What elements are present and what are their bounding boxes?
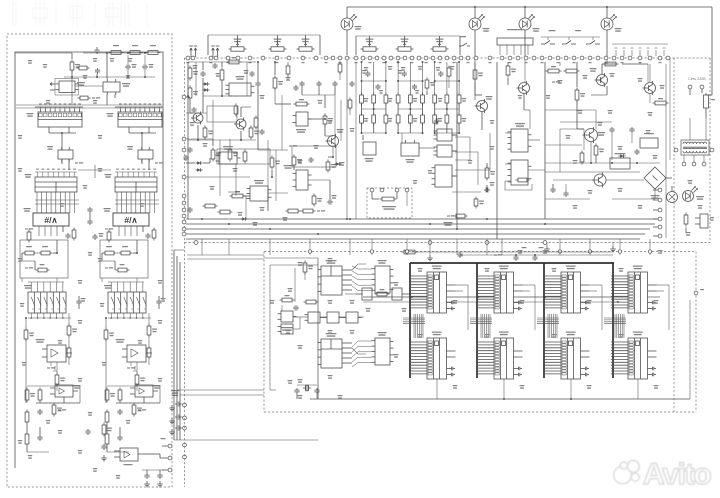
resistor R28 (348, 98, 352, 111)
register DD11 (K561IR2) (27, 109, 83, 133)
wires psu top (545, 62, 660, 219)
ground sym ch (101, 455, 107, 461)
resistor R88 (485, 166, 495, 181)
port expander DD34 (372, 332, 394, 365)
resistor R122 (132, 403, 142, 417)
DD17 pin wires ch2 (108, 282, 151, 319)
IO expander DD37 (KR580VV43), top row (544, 266, 590, 314)
resistor R86 (433, 113, 437, 126)
resistor R94 (546, 66, 562, 73)
wire latch to bus (49, 132, 83, 170)
bottom rail of digital board (310, 300, 690, 400)
resistor R18 (220, 68, 224, 83)
channel vertical rails ch2 (102, 278, 149, 403)
resistor R68 (301, 209, 326, 213)
capacitor C40 (609, 127, 614, 133)
resistor R32 (152, 228, 156, 241)
terminal row along top dashed border (186, 56, 670, 63)
osc gate DD30.4 (343, 312, 362, 323)
port expander DD33 (KM555) (372, 260, 394, 293)
ladder column wire 3 (397, 62, 399, 133)
resistor R91 (402, 250, 418, 254)
resistor R102 (118, 388, 122, 403)
ladder column wire 1 (373, 62, 375, 133)
diode VD1 (203, 82, 210, 86)
capacitor C30 (362, 70, 370, 77)
capacitor C15 (191, 107, 196, 113)
power arrow +15V ch1 (58, 409, 66, 410)
capacitor C81 (0.1) (76, 296, 85, 309)
resistor R16 (227, 57, 242, 64)
capacitor C36 (0.47) (484, 182, 495, 193)
op-amp DA23 (401, 140, 419, 163)
terminal a3 (485, 241, 489, 245)
resistor R78 (457, 93, 461, 106)
resistor R95 (564, 69, 580, 73)
resistor R39 (146, 51, 161, 55)
capacitor C22 (249, 71, 254, 77)
main analog board dashed enclosure A2 (185, 58, 711, 487)
wire bus above register (35, 103, 83, 109)
IO expander DD42 (KR580VV43), bottom row (611, 332, 657, 380)
capacitor C19 (183, 155, 188, 161)
resistor R131 (25, 432, 29, 447)
osc gate DD30.2 (305, 312, 324, 323)
transistor VT7 (KT315G) (326, 129, 344, 148)
resistor R15 (188, 86, 198, 101)
capacitor C81 (37, 435, 42, 441)
op-amp DA19 (363, 142, 376, 162)
op-amp DA21 (247, 180, 272, 201)
wire latch to bus (129, 132, 163, 170)
wires center cluster (257, 61, 356, 219)
caps C70/C71 to gnd (142, 470, 164, 487)
resistor divider R92 (105, 388, 115, 403)
resistor R107 (304, 300, 319, 304)
resistor divider R91 (25, 388, 35, 403)
capacitor C48 (550, 187, 555, 193)
value labels cluster, digital board (298, 262, 303, 266)
capacitor C12a (308, 157, 313, 163)
transistor VT6 (KP302 fet) (234, 118, 246, 131)
resistor R26 (286, 64, 290, 77)
capacitor C28 (1V) (327, 195, 337, 205)
resistor R64 (230, 191, 246, 198)
resistor R24 (234, 104, 238, 117)
LED V5 power indicator (683, 187, 705, 202)
capacitor C82 (117, 435, 122, 441)
bottom-left capacitor C63 (85, 429, 90, 435)
capacitor C18 (332, 81, 337, 87)
faint print-through ghost marks top-left (decorative) (13, 2, 147, 26)
feedback wires (107, 386, 160, 403)
capacitor C32 (398, 70, 407, 77)
capacitor C34 (434, 118, 440, 123)
capacitor C108 (314, 388, 319, 394)
counter DD31 (K155IE1) (318, 260, 367, 295)
crosslink wires between channels (78, 165, 111, 178)
ground mid (427, 255, 433, 261)
resistor R132 (103, 246, 117, 255)
capacitor C56 inter-channel (87, 207, 92, 213)
resistor R342 (147, 324, 157, 338)
IO expander DD41 (KR580VV43), bottom row (544, 332, 590, 380)
value labels cluster, psu right (558, 80, 563, 84)
value labels cluster, left board (28, 60, 33, 64)
wire extras upper analog (288, 62, 350, 116)
wires DA1/DA3 area (15, 53, 155, 105)
wires psu lower (545, 178, 672, 199)
ladder column wire 2 (385, 62, 387, 133)
resistor R62 (294, 99, 310, 106)
psu mesh wires (545, 58, 670, 238)
resistor R63 (292, 155, 302, 168)
IO expander DD36 (KR580VV43), top row (477, 266, 523, 314)
resistor R85 under DD27 (505, 178, 532, 190)
enclosure wires ch1 (22, 240, 58, 270)
subcircuit outline around DA24 (217, 149, 270, 164)
resistor R82 (384, 113, 388, 126)
resistor R141 (39, 246, 53, 255)
register DD12 (K561IR2) (107, 109, 163, 133)
digital board left rail wires (270, 265, 318, 390)
DAC output wires (25, 226, 63, 236)
ladder column wire 4 (409, 62, 411, 133)
osc area wires (264, 258, 318, 399)
pot R6 (431, 39, 449, 52)
diode VD9 (KD503) (196, 161, 203, 165)
terminal wires (146, 438, 168, 470)
treble pot R3 (Тембр ВЧ) (297, 39, 315, 52)
terminal a1 on bottom border (194, 241, 198, 245)
analog switch DD17 ch2 (K561KT3) (104, 285, 146, 313)
capacitor C23 (293, 85, 298, 91)
resistor R71 (203, 204, 218, 208)
resistor R98 (653, 98, 669, 105)
resistor R71 (372, 93, 376, 106)
top rail wires (83, 47, 148, 54)
pot bus 2 (356, 36, 460, 55)
flipflop DD27.2 (508, 160, 532, 185)
diode VD2 (203, 88, 210, 92)
channel vertical rails ch1 (22, 278, 69, 403)
preamp DA18 (AP7485D01) (226, 83, 255, 96)
bridge rectifier VD14 (KTs405A) (644, 167, 666, 199)
wires DD27 (497, 62, 545, 239)
junction dots tone area (361, 61, 461, 134)
DD32 to DD34 link wires (352, 341, 372, 367)
analog switch DD17 ch1 (K561KT3) (24, 285, 66, 313)
wire bundle ROM to DAC (35, 192, 79, 213)
mid bus wires (345, 294, 660, 303)
grounds under analog board (544, 242, 616, 252)
capacitor C61 (37, 409, 42, 415)
feedback wires (27, 386, 80, 403)
wire bus above register (115, 103, 163, 109)
resistor R70 (312, 194, 322, 207)
resistor R22 (107, 230, 111, 243)
DD29 feedback loop wires (452, 133, 490, 192)
resistor R38 (128, 51, 143, 55)
latch DD31 (58, 147, 73, 162)
resistor R58 (102, 423, 112, 437)
svg-text:#/∧: #/∧ (124, 215, 137, 225)
bottom bus wires of analog board (186, 219, 660, 239)
capacitor C14 (P3) (212, 63, 217, 69)
svg-text:Avito: Avito (643, 458, 711, 491)
+5V distribution with decoupling caps (494, 247, 613, 261)
resistor R90 (506, 64, 516, 78)
ROM DD51 (K573RF2) (25, 169, 78, 192)
ladder group tie wires (361, 80, 461, 133)
clock gen DA1 (K554CA3) (55, 79, 85, 96)
diode VD11 (241, 217, 248, 221)
diode VD10 (196, 168, 203, 172)
IO expander DD38 (KR580VV43), top row (611, 266, 657, 314)
resistor R151 (25, 264, 50, 272)
input terminals X2 arrows (211, 46, 219, 57)
terminal a2 on bottom border (428, 241, 432, 245)
gate DD29.3 (432, 165, 456, 226)
LED V1 (AL307B) (341, 7, 362, 55)
diode VD6 (335, 162, 342, 166)
value labels cluster, analog board left (193, 65, 198, 69)
terminal X3 (168, 444, 172, 448)
mode switch SC7 (stereo selector) (497, 29, 533, 55)
inner board outline (15, 52, 163, 468)
resistor R85 (421, 113, 425, 126)
resistor R80 (360, 113, 364, 126)
resistor R57 (243, 150, 247, 164)
resistor R73 (396, 93, 400, 106)
power transistor VT9 (KT819) (583, 127, 606, 143)
row link bundles horizontal (403, 318, 425, 324)
capacitor C49 (563, 191, 568, 197)
capacitor C17 (187, 147, 192, 153)
subcircuit outline around VT6 (207, 106, 237, 122)
inter-board vertical wires left (174, 250, 184, 440)
ladder column wire 5 (422, 62, 424, 133)
driver DA3 (KR140UD708) (103, 79, 130, 95)
capacitor C35 (438, 71, 443, 77)
DD17 pin wires ch1 (28, 282, 71, 319)
DD32 output fan wires (342, 343, 352, 363)
op-amp DA24 (KR140UD708) (216, 146, 241, 164)
stabilizer box VD12 (D814) (640, 133, 658, 148)
terminal X4 (168, 456, 172, 460)
DD31 to DD33 link wires (352, 266, 372, 291)
resistor R111 (25, 410, 29, 425)
svg-text:#/∧: #/∧ (44, 215, 57, 225)
capacitor C64 (101, 444, 106, 450)
fuse FU1 (704, 93, 716, 118)
counter DD32 (K155IE1) (318, 333, 367, 368)
transistor VT5 (KT203) (191, 112, 203, 125)
capacitor C44 (634, 149, 639, 155)
IO expander DD40 (KR580VV43), bottom row (477, 332, 523, 380)
resistor R82 (447, 66, 451, 79)
resistor R66 (323, 114, 333, 127)
wire rail y105 double (16, 105, 162, 108)
diode VD8 (619, 154, 626, 158)
resistor R88 (457, 113, 461, 126)
DD31 output fan wires (342, 270, 352, 290)
power arrow +5V (552, 81, 560, 82)
terminal X5 (168, 468, 172, 472)
buffer box E2 (392, 288, 402, 300)
buffer box E1 (362, 288, 372, 300)
resistor R70 (360, 93, 364, 106)
capacitor C107 (294, 388, 299, 394)
resistor R142 (119, 246, 133, 255)
connector verticals analog->digital band (202, 239, 652, 255)
resistor R27 (338, 62, 342, 75)
inter-row wire bundles (414, 314, 423, 338)
resistor R75 (421, 93, 425, 106)
lower chain wires (27, 425, 49, 453)
mains terminal Xp2 (700, 85, 704, 93)
+5V rail upper digital (410, 252, 613, 255)
resistor R20 (203, 126, 213, 140)
wires tone->switch cluster (363, 62, 487, 230)
transistor VT8 (KT315B) (590, 68, 608, 87)
wires DD30.5 (293, 317, 300, 329)
Avito watermark (decorative) (614, 458, 712, 491)
resistor R362 (135, 373, 145, 387)
volume trim R99 (684, 213, 688, 234)
resistor R76 (433, 93, 437, 106)
terminal a4 (543, 241, 547, 245)
terminal on right border (694, 289, 704, 295)
switch S1 (459, 36, 470, 55)
resistor R132 (105, 432, 109, 447)
address/data bus thick lines (410, 263, 614, 378)
resistor R341 (67, 324, 77, 338)
wire extras left analog (186, 113, 546, 235)
wire stubs C56 (89, 213, 91, 219)
output buffer DA7 (KR544UD2) (114, 448, 146, 465)
resistor R93 (580, 151, 584, 165)
label DA10 between boards (171, 390, 179, 396)
ROM DD52 (K573RF2) (105, 169, 158, 192)
capacitor C18 (100V) (142, 64, 154, 70)
input filter enclosure ch2 (100, 240, 148, 278)
terminals on A2 border lower (183, 403, 187, 459)
transistor VT13 (592, 173, 606, 188)
balance pot R4 (361, 39, 379, 52)
resistor R21 (27, 230, 31, 243)
lower chain wires (107, 425, 129, 453)
power arrow +15V ch2 (138, 409, 146, 410)
terminal column right border (653, 188, 662, 238)
resistor R89 (447, 214, 468, 218)
osc gate DD30.3 (324, 312, 343, 323)
power arrow mid (289, 145, 297, 146)
LED feed wires into board (346, 58, 607, 220)
ladder column wire 7 (446, 62, 448, 133)
capacitor C22 (145, 233, 150, 239)
resistor R103 (280, 295, 295, 302)
value labels cluster, tone columns (364, 67, 369, 71)
capacitor C31 (680) (375, 84, 383, 94)
resistor R23 (228, 148, 238, 162)
op-amp DA72 (KR140UD708) (116, 339, 153, 362)
resistor R84 (408, 113, 412, 126)
resistor R351 (67, 346, 71, 360)
resistor R30 (77, 66, 90, 70)
aux switch stubs top right (612, 44, 668, 56)
resistor R352 (147, 346, 151, 360)
mains terminal Xp1 (688, 85, 692, 95)
op-amp DA42 comparator (130, 385, 161, 397)
resistor R361 (55, 373, 65, 387)
resistor R100 (375, 289, 390, 296)
pot top bus wire (208, 35, 320, 55)
capacitor C62 (117, 409, 122, 415)
resistor R72 (218, 210, 233, 214)
transistor VT10 (KT203B) (475, 96, 493, 113)
digital board dashed enclosure A3 (264, 252, 696, 413)
resistor R102 (303, 261, 313, 275)
power mark below DA7 ch1 (47, 362, 57, 371)
switch bank SA1 contacts (541, 30, 600, 44)
transistor VT12 (KT342) (517, 81, 530, 95)
wires from analog to digital board (174, 255, 318, 440)
transformer secondary terminals (674, 148, 714, 166)
resistor R121 (24, 328, 34, 342)
resistor R112 (105, 410, 109, 425)
latch DD32 (138, 147, 153, 162)
volume pot R1 (Громкость) (229, 39, 247, 52)
top supply rail wire (347, 6, 712, 95)
capacitor C82 (0.1) (156, 296, 165, 309)
resistor R131 (23, 246, 37, 255)
input terminals X1 arrows (189, 46, 197, 57)
resistor R77 (445, 93, 449, 106)
capacitor C105 (293, 305, 299, 310)
regulator box VD13 (KREN) (610, 153, 630, 169)
resistor R96 (575, 88, 585, 103)
resistor R19 (70, 60, 80, 73)
ladder column wire 0 (361, 62, 363, 133)
IO expander DD39 (KR580VV43), bottom row (410, 332, 456, 380)
resistor R69 (326, 160, 336, 173)
ladder column wire 8 (458, 62, 460, 133)
resistor R25 (254, 116, 258, 130)
resistor R37 (109, 51, 124, 55)
extra vertical wires analog left (196, 62, 356, 196)
DAC DA41 (KR572PA1A #/Λ) (24, 208, 70, 226)
op-amp DA20 (KR140UD708) (293, 112, 312, 133)
crystal ZQ1 (298, 379, 312, 391)
capacitor C57 (87, 219, 92, 225)
resistor R92 (594, 144, 604, 158)
capacitor C27 (316, 81, 321, 87)
capacitor C21 (187, 207, 192, 213)
resistor R67 (286, 209, 301, 213)
capacitor C20 (255, 81, 260, 87)
DAC output wires (105, 226, 143, 236)
speaker BA1 (667, 186, 678, 203)
resistor R31 (78, 96, 101, 100)
capacitor C41 (629, 127, 634, 133)
pot R5 (396, 39, 414, 52)
resistor R122 (104, 328, 114, 342)
headphone jack box (695, 214, 714, 228)
capacitor C24 (349, 81, 354, 87)
capacitor C13 (95, 68, 100, 74)
resistor R87 (474, 197, 484, 209)
